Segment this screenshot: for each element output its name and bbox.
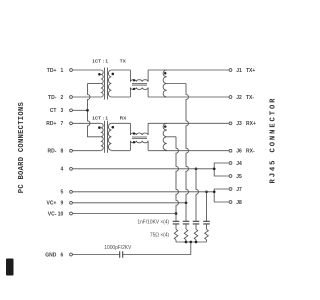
junction: VC- pin 10 wire on RX termination vertical: [175, 212, 178, 215]
pin terminal GND6 (PC board side): [70, 253, 73, 256]
svg-text:J8: J8: [236, 200, 242, 206]
wire choke L1 top to J1 TX+: [148, 69, 229, 71]
wire R1 to ground bus: [175, 240, 177, 242]
pin terminal J8 (RJ45 side): [229, 201, 232, 204]
svg-text:1CT : 1: 1CT : 1: [92, 115, 108, 120]
junction: R3 on ground bus: [195, 241, 198, 244]
junction: VC+ pin 9 wire on TX termination vertical: [185, 201, 188, 204]
junction: stem on ground bus: [189, 241, 192, 244]
wire choke L2 bottom to J6 RX-: [148, 150, 229, 152]
transformer T2 (RX) primary winding (1CT : 1): [101, 123, 103, 150]
pin terminal J5 (RJ45 side): [229, 175, 232, 178]
choke L1 (TX) core: [132, 84, 147, 85]
transformer T1 (TX) core: [105, 68, 108, 100]
bracket wire J7/J8: [214, 189, 229, 202]
wire T2 secondary top to choke L2: [111, 122, 130, 124]
svg-text:RX-: RX-: [246, 149, 255, 155]
svg-text:10: 10: [58, 211, 64, 217]
svg-text:J3: J3: [236, 121, 242, 127]
wire T1 secondary bottom to choke L1: [111, 96, 130, 98]
svg-text:1: 1: [61, 68, 64, 74]
pin terminal J6 (RJ45 side): [229, 149, 232, 152]
pin terminal TD-2 (PC board side): [70, 96, 73, 99]
termination vertical from L3 (TX) center tap, hops J2/J3/J6/pin4/pin5 rows: [186, 84, 189, 222]
autotransformer L4 (RX) center tap lead: [167, 136, 176, 138]
common-mode choke L1 (TX) top winding: [130, 70, 148, 82]
svg-text:7: 7: [61, 121, 64, 127]
transformer T2 (RX) primary polarity dot: [98, 126, 101, 129]
svg-text:3: 3: [61, 108, 64, 114]
T1 primary center tap lead: [88, 83, 101, 85]
junction: pin 5 wire to termination vertical: [205, 190, 208, 193]
autotransformer L4 (RX) winding: [163, 123, 167, 150]
wire RD- pin 8 to T2 primary bottom: [73, 150, 101, 152]
common-mode choke L2 (RX) top winding: [130, 123, 148, 135]
svg-text:J5: J5: [236, 174, 242, 180]
svg-text:J1: J1: [236, 68, 242, 74]
wire T1 secondary top to choke L1: [111, 69, 130, 71]
termination vertical from L4 (RX) center tap, hops J6/pin4/pin5/VC+ rows: [176, 137, 179, 222]
autotransformer L3 (TX) winding: [163, 70, 167, 97]
transformer T1 (TX) secondary winding: [108, 70, 111, 97]
transformer T2 (RX) secondary winding: [108, 123, 111, 150]
termination vertical from pin 5 / J7 / J8 net: [206, 192, 208, 222]
pin terminal J4 (RJ45 side): [229, 162, 232, 165]
junction: pin 4 wire on J4/J5 bracket: [213, 167, 216, 170]
pin terminal 5 (PC board side): [70, 190, 73, 193]
capacitor C4 1nF/10KV: [203, 221, 210, 224]
wire C1 to R1: [175, 224, 177, 229]
pin terminal 4 (PC board side): [70, 167, 73, 170]
svg-text:8: 8: [61, 149, 64, 155]
scan artifact bar (bottom left): [6, 259, 14, 276]
common-mode choke L1 (TX) bottom winding: [130, 88, 148, 98]
svg-text:TX+: TX+: [246, 68, 255, 74]
wire R2 to ground bus: [185, 240, 187, 242]
junction: pin 4 wire to termination vertical: [195, 167, 198, 170]
svg-text:TD+: TD+: [47, 68, 57, 74]
svg-text:RX+: RX+: [246, 121, 256, 127]
pin terminal RD-8 (PC board side): [70, 149, 73, 152]
junction: CT pin 3 on center-tap bus: [86, 109, 89, 112]
svg-text:J2: J2: [236, 95, 242, 101]
autotransformer L3 (TX) polarity dot: [164, 72, 167, 75]
wire RD+ pin 7 to T2 primary top: [73, 122, 101, 124]
capacitor C5 1000pF/2KV (chassis): [120, 251, 123, 257]
wire C3 to R3: [195, 224, 197, 229]
pin terminal TD+1 (PC board side): [70, 69, 73, 72]
pin terminal VC-10 (PC board side): [70, 212, 73, 215]
capacitor C2 1nF/10KV: [183, 221, 190, 224]
resistor R3 75 ohm: [194, 229, 198, 239]
svg-text:5: 5: [61, 190, 64, 196]
choke L2 (RX) top winding polarity dot: [133, 132, 135, 134]
wire CT pin 3 to center-tap bus: [73, 109, 88, 111]
pin terminal RD+7 (PC board side): [70, 122, 73, 125]
svg-text:4: 4: [61, 167, 64, 173]
wire R4 to ground bus: [206, 240, 208, 242]
autotransformer L3 (TX) center tap lead: [167, 83, 186, 85]
svg-text:6: 6: [61, 252, 64, 258]
wire R3 to ground bus: [195, 240, 197, 242]
wire pin 4 row to J4/J5 bracket: [73, 168, 215, 170]
wire VC+ pin 9 to TX termination vertical: [73, 202, 186, 204]
autotransformer L4 (RX) polarity dot: [164, 125, 167, 128]
svg-text:TD-: TD-: [48, 95, 57, 101]
choke L1 (TX) bottom winding polarity dot: [133, 88, 135, 90]
junction: pin 5 wire on J7/J8 bracket: [213, 190, 216, 193]
pin terminal J1 (RJ45 side): [229, 69, 232, 72]
svg-text:RD-: RD-: [48, 149, 57, 155]
pin terminal CT3 (PC board side): [70, 109, 73, 112]
transformer T2 (RX) secondary polarity dot: [112, 126, 115, 129]
wire GND pin 6 to chassis capacitor C5: [73, 254, 120, 256]
svg-text:RX: RX: [120, 115, 127, 120]
wire TD+ pin 1 to T1 primary top: [73, 69, 101, 71]
common-mode choke L2 (RX) bottom winding: [130, 141, 148, 151]
capacitor C1 1nF/10KV: [173, 221, 180, 224]
wire choke L1 bottom to J2 TX-: [148, 96, 229, 98]
wire C4 to R4: [206, 224, 208, 229]
svg-text:J6: J6: [236, 149, 242, 155]
pin terminal VC+9 (PC board side): [70, 201, 73, 204]
wire T2 secondary bottom to choke L2: [111, 150, 130, 152]
svg-text:75Ω ×(4): 75Ω ×(4): [150, 232, 169, 238]
choke L1 (TX) top winding polarity dot: [133, 79, 135, 81]
svg-text:PC BOARD CONNECTIONS: PC BOARD CONNECTIONS: [18, 102, 26, 194]
svg-text:2: 2: [61, 95, 64, 101]
resistor R4 75 ohm: [205, 229, 209, 239]
pin terminal J3 (RJ45 side): [229, 122, 232, 125]
wire choke L2 top to J3 RX+: [148, 122, 229, 124]
pin terminal J7 (RJ45 side): [229, 188, 232, 191]
svg-text:GND: GND: [45, 252, 57, 258]
junction: R2 on ground bus: [185, 241, 188, 244]
svg-text:TX: TX: [120, 59, 127, 64]
transformer T1 (TX) secondary polarity dot: [112, 73, 115, 76]
wire TD- pin 2 to T1 primary bottom: [73, 96, 101, 98]
choke L2 (RX) bottom winding polarity dot: [133, 141, 135, 143]
resistor R1 75 ohm: [174, 229, 178, 239]
svg-text:1CT : 1: 1CT : 1: [92, 59, 108, 64]
svg-text:1000pF/2KV: 1000pF/2KV: [104, 245, 132, 251]
bracket wire J4/J5: [214, 163, 229, 176]
pin terminal J2 (RJ45 side): [229, 96, 232, 99]
transformer T2 (RX) core: [105, 121, 108, 153]
svg-text:VC-: VC-: [48, 211, 57, 217]
svg-text:J7: J7: [236, 187, 242, 193]
transformer T1 (TX) primary polarity dot: [98, 73, 101, 76]
resistor R2 75 ohm: [184, 229, 188, 239]
wire ground bus stem down to chassis cap line: [123, 242, 191, 255]
wire pin 5 row to J7/J8 bracket: [73, 191, 215, 193]
svg-text:9: 9: [61, 201, 64, 207]
svg-text:VC+: VC+: [47, 201, 57, 207]
svg-text:RD+: RD+: [46, 121, 56, 127]
choke L2 (RX) core: [132, 137, 147, 138]
termination vertical from pin 4 / J4 / J5 net, hops pin5 row: [196, 169, 199, 222]
capacitor C3 1nF/10KV: [193, 221, 200, 224]
svg-text:CT: CT: [50, 108, 57, 114]
svg-text:1nF/10KV ×(4): 1nF/10KV ×(4): [137, 220, 169, 226]
svg-text:TX-: TX-: [246, 95, 254, 101]
wire C2 to R2: [185, 224, 187, 229]
termination ground bus: [176, 241, 207, 243]
transformer T1 (TX) primary winding (1CT : 1): [101, 70, 103, 97]
center-tap vertical bus (T1 CT to T2 CT, hops over TD- and RD+ wires): [88, 84, 101, 137]
svg-text:J4: J4: [236, 161, 242, 167]
wire VC- pin 10 to RX termination vertical: [73, 213, 176, 215]
